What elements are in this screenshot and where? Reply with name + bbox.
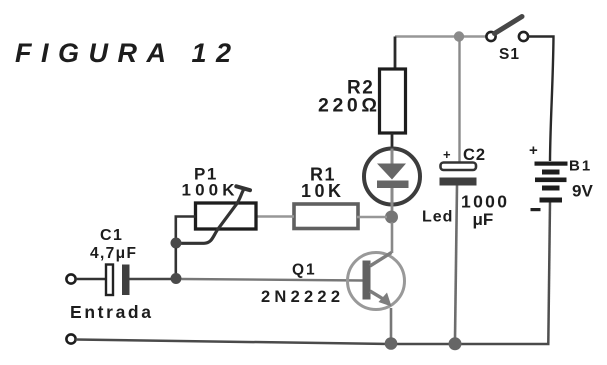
label C1 — [100, 227, 123, 244]
wire junction to Q1 collector — [391, 222, 394, 253]
label FIGURA 12 — [15, 38, 231, 68]
node C2/rail junction — [449, 337, 462, 350]
label Q1 — [292, 262, 317, 279]
svg-text:4,7μF: 4,7μF — [90, 245, 136, 262]
LED D1 — [364, 149, 420, 206]
svg-text:FIGURA 12: FIGURA 12 — [15, 38, 231, 68]
wire input to C1 — [76, 278, 107, 280]
transistor Q1 — [348, 253, 405, 310]
svg-text:100K: 100K — [182, 181, 236, 200]
label R1 — [310, 165, 336, 185]
wire P1 left stub down — [176, 217, 196, 239]
node P1/wiper junction — [171, 238, 182, 249]
svg-text:Led: Led — [422, 209, 453, 226]
label battery plus — [529, 142, 538, 159]
svg-text:9V: 9V — [572, 182, 593, 201]
svg-text:Q1: Q1 — [292, 262, 317, 279]
battery B1 — [535, 162, 568, 203]
label uF — [473, 210, 494, 229]
wire Q1 emitter lead — [390, 308, 393, 339]
wire C2 bottom lead — [455, 186, 457, 340]
node LED/R1/collector junction — [385, 211, 398, 224]
label 220 ohm — [318, 95, 377, 117]
node emitter/rail junction — [385, 337, 398, 350]
label 2N2222 — [261, 288, 340, 306]
svg-text:+: + — [443, 147, 451, 162]
wire C1 to base junction — [130, 278, 172, 280]
wire base net — [182, 279, 363, 281]
svg-text:S1: S1 — [499, 46, 520, 63]
terminal input bottom — [66, 334, 75, 343]
potentiometer P1 — [178, 186, 256, 243]
label 1000 — [461, 192, 507, 212]
label 9V — [572, 182, 593, 201]
label 100K — [182, 181, 236, 200]
label 4,7uF — [90, 245, 136, 262]
label R2 — [347, 78, 374, 99]
switch S1 — [486, 17, 528, 42]
wire C2 top lead — [458, 37, 460, 164]
svg-text:B1: B1 — [569, 158, 592, 175]
label B1 — [569, 158, 592, 175]
resistor R2 — [380, 69, 406, 133]
label P1 — [194, 165, 218, 184]
wire top rail — [395, 35, 487, 37]
label S1 — [499, 46, 520, 63]
resistor R1 — [294, 204, 358, 229]
label Entrada — [70, 302, 151, 322]
wire R2 bottom lead — [391, 133, 394, 149]
wire R2 top lead — [394, 37, 397, 70]
label Led — [422, 209, 453, 226]
label battery minus — [531, 208, 541, 211]
label C2 plus — [443, 147, 451, 162]
svg-text:220Ω: 220Ω — [318, 95, 377, 117]
svg-text:μF: μF — [473, 210, 494, 229]
wire LED bottom lead — [391, 205, 394, 212]
wire junction down to base net — [175, 248, 178, 274]
terminal input top — [66, 274, 75, 283]
wire R1 right lead — [357, 216, 387, 218]
svg-text:C2: C2 — [463, 146, 486, 164]
capacitor C2 — [440, 163, 477, 186]
label 10K — [301, 181, 341, 201]
wire battery bottom lead — [548, 203, 550, 344]
label C2 — [463, 146, 486, 164]
node junction top (C2 tap) — [454, 31, 464, 41]
svg-text:10K: 10K — [301, 181, 341, 201]
svg-text:C1: C1 — [100, 227, 123, 244]
svg-text:+: + — [529, 142, 538, 159]
capacitor C1 — [106, 265, 130, 296]
wire S1 to battery top — [528, 37, 554, 162]
node C1/base junction — [171, 273, 182, 284]
wire R1 left lead — [256, 215, 294, 217]
wire bottom rail — [76, 340, 550, 345]
